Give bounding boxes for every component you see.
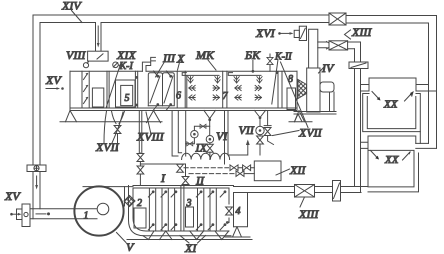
dryer right wall (296, 71, 298, 110)
upper XX arrows (372, 92, 380, 100)
svg-text:4: 4 (236, 206, 241, 217)
motor pedestal (330, 92, 335, 112)
pointer XIV (72, 11, 83, 23)
ground line under chambers (127, 239, 252, 241)
chamber floor (144, 231, 231, 236)
svg-text:VIII: VIII (66, 48, 86, 62)
upper filter XX body outer (363, 94, 421, 132)
downcomer A pair (355, 42, 361, 193)
K-II top valve (269, 54, 271, 57)
svg-text:IV: IV (321, 61, 335, 75)
wire left downcomer outer (32, 15, 34, 219)
upper lid right connection (416, 85, 437, 92)
fan IV motor (320, 82, 334, 92)
panel 2 (134, 208, 146, 228)
svg-text:XIII: XIII (298, 207, 319, 221)
atomizer circle K-I pointer (113, 62, 119, 68)
valve 4 (226, 207, 233, 215)
pointer III (156, 60, 166, 77)
dashed water line 2 (189, 173, 236, 175)
lower XX arrows (371, 151, 379, 159)
svg-text:XV: XV (45, 73, 62, 87)
BK side arrows right (255, 85, 261, 90)
diamond damper in fan outlet (124, 196, 135, 207)
feeder VIII box (88, 51, 109, 61)
dryer left wall (69, 71, 71, 110)
BK right wall pair (278, 71, 282, 108)
arrow XVI (278, 32, 281, 35)
svg-text:6: 6 (176, 91, 181, 102)
valve XIII top 2 crossed box (329, 41, 348, 50)
svg-text:5: 5 (125, 93, 130, 104)
seal pot legs (233, 227, 242, 237)
bowtie pair on line 2 (236, 171, 244, 177)
MK chamber left wall pair (185, 71, 187, 108)
wire fan inlet duct top (30, 208, 97, 210)
wire left downcomer inner (39, 23, 41, 209)
meter circle 1 (191, 131, 198, 138)
BK inner top with notch (228, 73, 261, 76)
valve XIII bottom crossed box (295, 185, 315, 198)
chamber I column pair 1 (149, 188, 155, 231)
ground line under right support (289, 121, 312, 123)
svg-text:XVII: XVII (298, 126, 323, 140)
fitting XVI body (299, 26, 306, 40)
pipe valve2 to downcomer A (348, 42, 361, 49)
node dot BK top (252, 70, 255, 73)
svg-text:XX: XX (383, 99, 399, 111)
lower filter XX lid (368, 136, 416, 148)
arrow XV top (46, 88, 58, 90)
BK label pointer (252, 61, 254, 72)
pointer XIII bottom (300, 197, 305, 207)
air intake fitting XV (22, 204, 30, 227)
pointer XI a (180, 236, 189, 244)
middle support leg (147, 111, 161, 123)
pointer V (117, 233, 127, 243)
pointer XVII left a (104, 111, 107, 143)
meter VII circle (256, 126, 264, 134)
K-I cyclone cell 1 (148, 73, 162, 106)
svg-text:2: 2 (137, 198, 142, 209)
support leg left (66, 111, 77, 122)
lower filter outer wall right (368, 153, 419, 192)
drop pipe XVIII pair (139, 111, 142, 154)
open arrowhead into valve 2 (327, 42, 333, 49)
valve under meter VII (259, 135, 261, 136)
chambers top duct double (133, 186, 234, 189)
hopper pocket under K-I (112, 111, 125, 124)
section X right wall (176, 71, 178, 108)
K-II drain valve with bar (267, 111, 269, 126)
upper filter XX lid (369, 78, 416, 91)
BK top down arrows (234, 77, 239, 83)
dryer body bottom edge double (70, 108, 297, 111)
fan hub (97, 203, 109, 215)
svg-text:I: I (160, 171, 166, 185)
divider I-II pair (181, 186, 184, 232)
K-I node dots (156, 75, 159, 78)
pointer X (178, 61, 181, 71)
tank XII (254, 161, 281, 181)
MK side arrows right (213, 85, 219, 90)
pointer IV (319, 68, 324, 74)
upper filter right wall extension (419, 132, 421, 144)
chamber II right wall pair (229, 188, 234, 227)
wire top duct right of valve XIII inner (346, 23, 429, 143)
inner wall b (88, 71, 90, 108)
svg-text:К-II: К-II (274, 52, 292, 63)
stub to meter circle 1 (194, 126, 209, 130)
access panel left (92, 88, 103, 107)
meter circle 2 (206, 136, 213, 143)
slanted damper on bottom pipe (333, 181, 341, 202)
svg-text:XIV: XIV (61, 0, 82, 13)
hopper under MK (204, 111, 215, 119)
drain of circle 1 with bowtie (186, 138, 195, 144)
feed pipe down to feeder VIII outer (95, 23, 97, 52)
svg-text:VII: VII (239, 123, 255, 137)
stub to lower filter lid (361, 142, 369, 148)
svg-text:XVII: XVII (95, 140, 120, 154)
MK/BK divider pair (223, 71, 227, 108)
spray dots chamber I top (152, 190, 227, 226)
pointer XVIII (146, 112, 151, 132)
svg-text:МК: МК (195, 48, 215, 62)
pointer XVII right short (273, 131, 300, 136)
pointer XIX (106, 63, 121, 109)
svg-text:XVIII: XVIII (136, 130, 165, 144)
fan outlet tangent (83, 186, 133, 188)
MK side arrows left (189, 85, 195, 90)
node dots K-I wall (135, 76, 138, 79)
lower lid right connection (416, 143, 437, 148)
pointer XIII top (345, 30, 351, 39)
svg-text:XII: XII (289, 163, 306, 177)
pointer MK (208, 60, 216, 70)
flow arrow into intake (10, 213, 13, 216)
stub to upper filter lid (361, 85, 370, 92)
vent line with up arrow (228, 144, 248, 155)
MK inner top with notch (182, 73, 219, 76)
valve under meter 2 (207, 144, 214, 152)
panel 8 (287, 88, 296, 110)
chamber II column pair 2 (210, 188, 216, 231)
svg-text:XIII: XIII (351, 25, 372, 39)
wire top duct right of valve XIII outer (346, 16, 437, 149)
pointer XVII right long diagonal (281, 62, 309, 128)
hopper under BK (255, 111, 266, 118)
svg-text:XX: XX (384, 154, 400, 166)
chimney duct above dryer (142, 57, 155, 71)
hopper V shapes under chambers (143, 231, 229, 240)
upper filter XX body inner (367, 97, 416, 129)
IV baseplate (294, 112, 336, 115)
ground line under dryer (60, 121, 162, 123)
chamber I column pair 2 (162, 188, 168, 231)
dashed water line 1 (184, 167, 229, 169)
seal pot under chamber II (234, 193, 248, 227)
valve XIII top 1 crossed box (329, 13, 346, 25)
svg-text:VI: VI (216, 129, 228, 143)
flange on downcomer A (349, 62, 368, 69)
K-I section wall pair (135, 71, 137, 108)
pointer K-I (119, 65, 123, 66)
valve on dashed line 1 (177, 164, 184, 172)
pointer K-II short (272, 60, 278, 105)
pointer XI b (198, 236, 206, 244)
valve XVIII lower (137, 166, 144, 174)
chamber I left wall with bend (133, 188, 146, 231)
bowtie on stub (200, 124, 206, 128)
lower filter XX body (368, 148, 414, 187)
pointer XVII left b (112, 112, 123, 143)
svg-text:БК: БК (244, 48, 261, 62)
flow arrow in fan inlet duct (36, 213, 46, 215)
K-I drain pair to trough (172, 111, 182, 157)
ground under seal pot (225, 236, 250, 238)
svg-text:XVI: XVI (255, 26, 276, 40)
node dot K-II top (276, 71, 279, 74)
node dot under valve 4 (226, 221, 229, 224)
svg-text:XV: XV (4, 189, 21, 203)
svg-text:3: 3 (186, 198, 192, 209)
flange on left downcomer (27, 165, 46, 172)
IV support leg (295, 114, 303, 122)
wire fan inlet duct bottom (30, 218, 97, 220)
trough with scallops (182, 153, 230, 159)
support leg right (295, 111, 305, 122)
fan outlet throat (124, 187, 126, 206)
wire top duct inner line (40, 22, 329, 24)
fan V scroll circle (74, 186, 123, 235)
panel 5 inner (121, 85, 133, 105)
divider wall extension below dryer (225, 111, 229, 165)
svg-text:К-I: К-I (119, 61, 134, 72)
svg-text:7: 7 (223, 91, 229, 102)
svg-text:XIX: XIX (116, 48, 136, 62)
node dot on VI line (208, 118, 211, 121)
spray ticks chamber I (148, 192, 176, 230)
svg-text:X: X (176, 52, 185, 66)
panel 3 (186, 207, 194, 227)
wire top duct outer line (33, 14, 329, 16)
inner wall c pair (107, 71, 109, 108)
bottom exhaust pipe double (234, 187, 369, 193)
drain wall line MK left (185, 111, 187, 157)
svg-text:XI: XI (184, 241, 197, 254)
BK side arrows left (235, 85, 241, 90)
panel 5 outer (116, 80, 136, 107)
branch line to trough (140, 163, 185, 165)
flow arrow down in left downcomer (36, 176, 38, 186)
spray ticks chamber II (196, 192, 225, 230)
fitting XVI side box (294, 30, 299, 37)
hatch column arrows (84, 74, 88, 104)
dryer body top edge (70, 70, 297, 72)
svg-text:II: II (195, 174, 205, 188)
svg-text:1: 1 (84, 211, 89, 222)
atomizer circle under VIII (87, 61, 89, 63)
valve on dashed line 2 (185, 164, 187, 186)
riser from IV to valve XVI pair (309, 29, 318, 68)
inner wall a (81, 71, 83, 108)
MK top down arrows (188, 77, 193, 83)
svg-text:8: 8 (288, 74, 293, 85)
chamber I right wall (174, 188, 176, 231)
fan IV body (307, 68, 320, 112)
hatched inlet cone to fan IV (298, 80, 307, 99)
bowtie pair on line 1 (230, 165, 238, 171)
K-I cyclone cell 2 (148, 73, 174, 106)
valve under K-I hopper (114, 126, 121, 134)
svg-text:IX: IX (195, 141, 208, 155)
flow arrow in feed pipe (97, 26, 99, 44)
svg-text:V: V (126, 240, 135, 254)
chamber II column pair 1 (198, 188, 204, 231)
svg-text:III: III (162, 51, 176, 65)
branch riser to valve 2 (318, 42, 327, 48)
node dot on VII line (259, 116, 262, 119)
pointer XII (276, 169, 290, 175)
valve XVIII upper (137, 154, 144, 162)
